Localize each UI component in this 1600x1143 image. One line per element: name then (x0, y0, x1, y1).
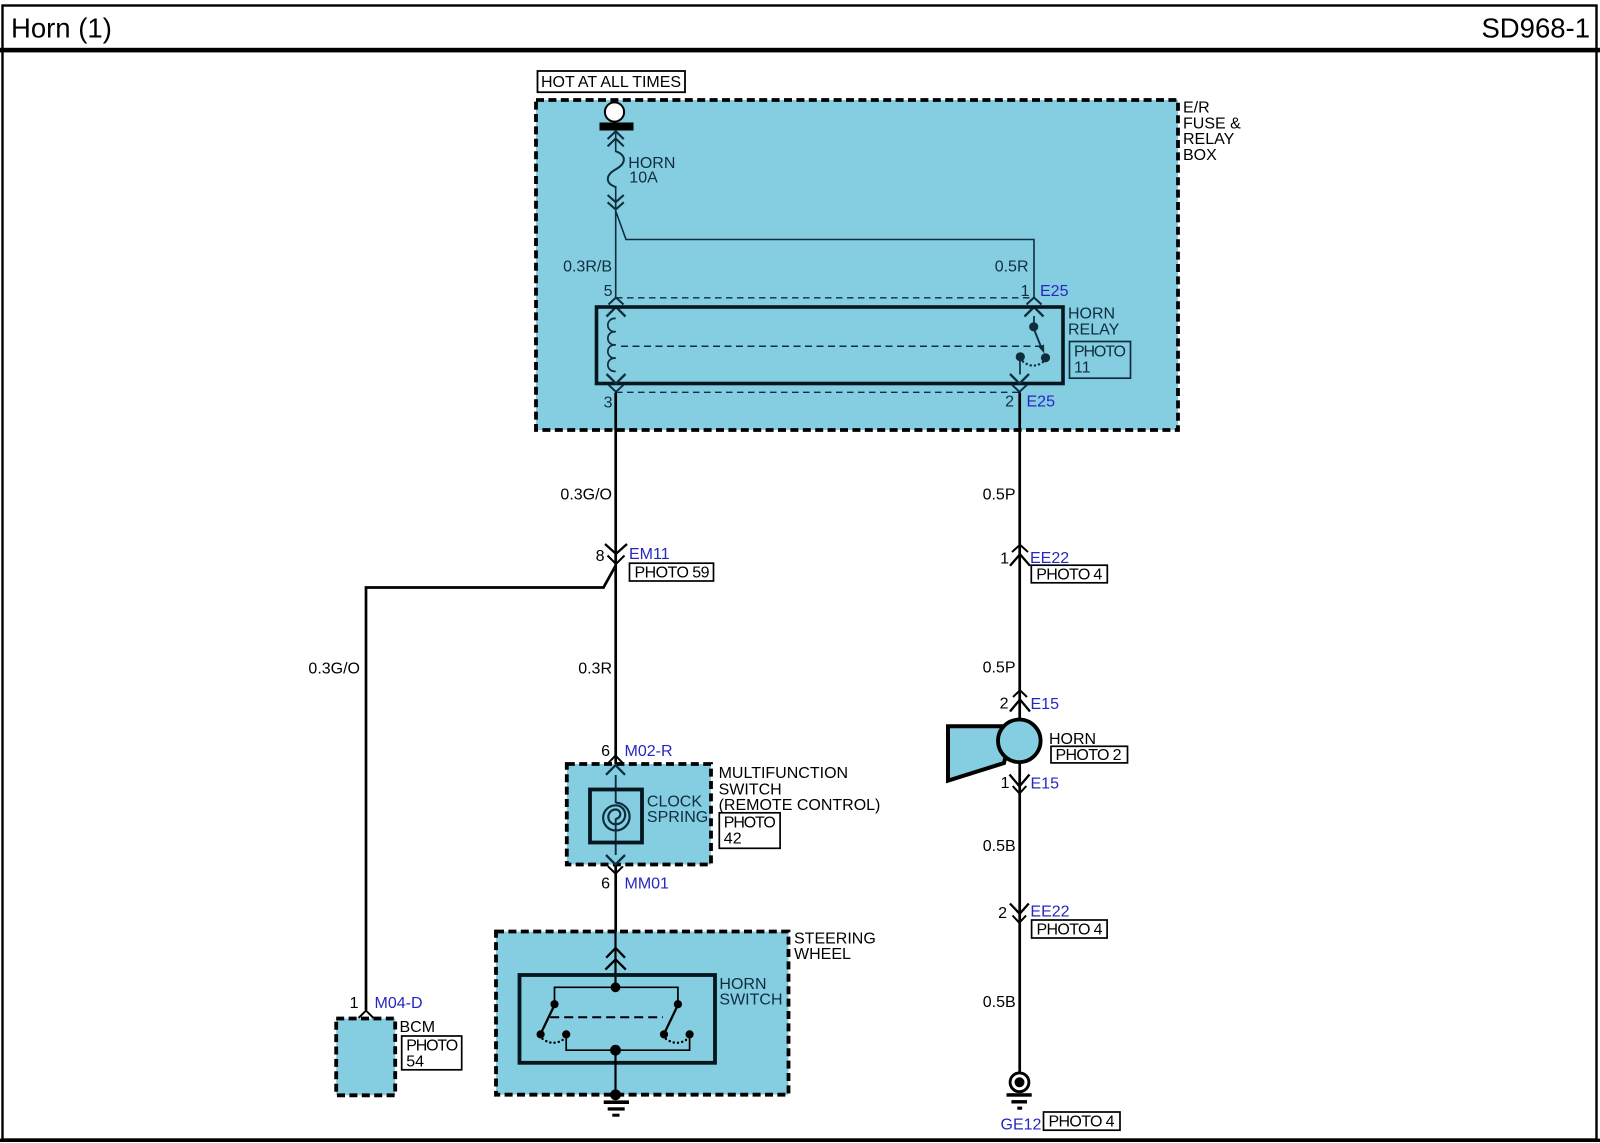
horn switch right arm (665, 1006, 678, 1033)
connector dashed line pins 3/2 (616, 391, 1020, 393)
svg-text:0.5B: 0.5B (983, 994, 1016, 1011)
label HOT AT ALL TIMES (538, 71, 686, 92)
relay internal dashed link (621, 345, 1040, 347)
svg-text:SWITCH: SWITCH (719, 781, 782, 798)
label PHOTO 4 (EE22 upper) (1031, 565, 1107, 583)
connector dashed line pins 5/1 (616, 297, 1034, 299)
svg-text:PHOTO 4: PHOTO 4 (1036, 566, 1102, 583)
horn switch box (520, 975, 716, 1063)
svg-text:RELAY: RELAY (1068, 321, 1120, 338)
svg-text:HOT AT ALL TIMES: HOT AT ALL TIMES (541, 74, 681, 91)
svg-text:PHOTO: PHOTO (406, 1037, 458, 1054)
steering wheel box (dashed blue) (496, 932, 789, 1095)
svg-text:E15: E15 (1031, 696, 1060, 713)
horn switch link dashed line (550, 1016, 663, 1018)
connector E15 chevrons (to horn pin 2) (1013, 690, 1027, 697)
svg-text:10A: 10A (629, 169, 658, 186)
wire relay pin 2 down to ground (1018, 393, 1021, 1074)
connector M02-R chevron (above clock spring) (608, 756, 623, 764)
svg-text:MM01: MM01 (625, 876, 670, 893)
relay coil (608, 318, 616, 371)
label PHOTO 2 (1051, 746, 1128, 763)
connector M04-D chevron (359, 1011, 374, 1018)
svg-text:BOX: BOX (1183, 147, 1217, 164)
svg-text:M02-R: M02-R (625, 743, 673, 760)
label PHOTO 42 (719, 813, 780, 849)
bus bar (600, 123, 634, 131)
horn switch common node (611, 982, 621, 992)
BCM box (dashed blue) (336, 1019, 395, 1096)
svg-text:PHOTO: PHOTO (1074, 343, 1126, 360)
svg-text:CLOCK: CLOCK (647, 793, 702, 810)
relay contact dots (1016, 352, 1025, 361)
horn switch right moving contacts (660, 1030, 668, 1038)
svg-text:PHOTO 59: PHOTO 59 (635, 565, 710, 582)
horn switch left fixed contact (550, 1000, 558, 1008)
svg-text:2: 2 (1000, 695, 1009, 712)
svg-text:PHOTO: PHOTO (724, 814, 776, 831)
connector MM01 chevron (below clock spring) (608, 866, 623, 873)
svg-text:0.5P: 0.5P (983, 659, 1016, 676)
svg-text:0.3R/B: 0.3R/B (563, 259, 612, 276)
clock spring spiral (603, 803, 629, 831)
svg-text:SWITCH: SWITCH (719, 991, 782, 1008)
relay switch arm (1034, 329, 1042, 349)
relay switch contact from pin 1 (1033, 316, 1035, 324)
svg-text:HORN: HORN (1068, 306, 1115, 323)
label PHOTO 4 (EE22 lower) (1032, 920, 1108, 938)
wire relay pin 3 down to horn switch (614, 393, 617, 988)
svg-text:0.5P: 0.5P (983, 486, 1016, 503)
wire branch to BCM (366, 566, 616, 1011)
horn switch right fixed contact (674, 1000, 682, 1008)
svg-text:1: 1 (1001, 775, 1010, 792)
connector E15 chevrons (from horn pin 1) (1010, 775, 1030, 787)
clock spring inner box (590, 790, 642, 843)
horn circle (998, 720, 1041, 763)
steering wheel entry chevrons (606, 948, 625, 958)
svg-text:0.3G/O: 0.3G/O (308, 660, 360, 677)
svg-text:SPRING: SPRING (647, 809, 708, 826)
wire contact to pin 2 (1019, 359, 1021, 375)
battery feed terminal (605, 102, 624, 121)
svg-text:3: 3 (604, 395, 613, 412)
svg-text:HORN: HORN (1049, 731, 1096, 748)
horn switch output node (610, 1045, 621, 1056)
label PHOTO 54 (402, 1036, 462, 1070)
svg-text:EM11: EM11 (629, 546, 670, 563)
svg-text:0.3G/O: 0.3G/O (560, 486, 612, 503)
svg-text:1: 1 (350, 995, 359, 1012)
svg-text:E15: E15 (1031, 776, 1060, 793)
wire through clock spring (615, 775, 617, 803)
svg-text:E25: E25 (1040, 283, 1069, 300)
svg-text:GE12: GE12 (1001, 1117, 1042, 1134)
svg-text:SD968-1: SD968-1 (1481, 13, 1590, 44)
label PHOTO 59 (630, 563, 714, 581)
horn switch left arm (541, 1006, 554, 1033)
wire inside steering wheel box (614, 932, 616, 988)
wire fuse to relay pin 5 (615, 211, 617, 297)
svg-text:M04-D: M04-D (375, 995, 423, 1012)
svg-text:EE22: EE22 (1030, 550, 1069, 567)
svg-text:0.3R: 0.3R (578, 660, 612, 677)
fuse bottom connector chevrons (615, 186, 617, 212)
svg-text:11: 11 (1074, 359, 1091, 376)
svg-text:MULTIFUNCTION: MULTIFUNCTION (719, 765, 848, 782)
steering ground bars (604, 1100, 629, 1104)
connector EM11 chevrons (605, 544, 627, 554)
svg-text:STEERING: STEERING (794, 930, 876, 947)
pin 3 connector chevrons (607, 374, 626, 384)
svg-text:0.5R: 0.5R (995, 259, 1029, 276)
svg-text:BCM: BCM (400, 1019, 436, 1036)
label PHOTO 11 (1070, 342, 1131, 379)
svg-text:PHOTO 2: PHOTO 2 (1056, 747, 1122, 764)
svg-text:E25: E25 (1027, 394, 1056, 411)
svg-text:42: 42 (724, 830, 742, 847)
svg-text:EE22: EE22 (1030, 903, 1069, 920)
title divider line (0, 48, 1600, 53)
svg-text:WHEEL: WHEEL (794, 946, 851, 963)
horn relay box (597, 307, 1064, 384)
connector EE22 chevrons (upper) (1012, 545, 1028, 552)
steering ground node dot (610, 1089, 621, 1100)
horn body trapezoid (948, 726, 1013, 780)
connector chevron inside clock spring top (606, 765, 625, 775)
fuse top connector chevrons (615, 130, 617, 152)
svg-text:E/R: E/R (1183, 100, 1210, 117)
svg-text:1: 1 (1000, 550, 1009, 567)
svg-text:PHOTO 4: PHOTO 4 (1037, 921, 1103, 938)
svg-text:6: 6 (601, 743, 610, 760)
pin 1 connector chevrons (1027, 298, 1042, 305)
ground GE12 ring (1010, 1073, 1029, 1092)
wire to steering ground (614, 1050, 616, 1100)
svg-text:2: 2 (1005, 394, 1014, 411)
svg-text:(REMOTE CONTROL): (REMOTE CONTROL) (719, 797, 881, 814)
svg-text:8: 8 (596, 548, 605, 565)
svg-text:RELAY: RELAY (1183, 131, 1235, 148)
svg-text:6: 6 (601, 876, 610, 893)
relay switch travel dashed arc (1023, 362, 1043, 366)
label PHOTO 4 (GE12) (1044, 1112, 1121, 1130)
connector EE22 chevrons (lower) (1010, 904, 1029, 914)
svg-text:FUSE &: FUSE & (1183, 115, 1241, 132)
svg-text:5: 5 (604, 283, 613, 300)
horn switch right travel dotted arc (666, 1039, 688, 1043)
svg-text:PHOTO 4: PHOTO 4 (1049, 1114, 1115, 1131)
clock spring box (dashed blue) (567, 764, 711, 865)
horn switch bottom rail (566, 1036, 689, 1050)
E/R fuse & relay box (dashed blue) (536, 100, 1178, 430)
svg-text:0.5B: 0.5B (983, 838, 1016, 855)
wire branch to relay pin 1 (616, 211, 1034, 297)
horn switch top rail (555, 987, 678, 1003)
ground GE12 bars (1007, 1093, 1032, 1097)
pin 5 connector chevrons (609, 298, 624, 305)
svg-text:54: 54 (406, 1053, 424, 1070)
svg-text:Horn (1): Horn (1) (11, 13, 112, 44)
fuse HORN 10A element (608, 151, 624, 187)
horn switch left moving contacts (537, 1030, 545, 1038)
horn switch left travel dotted arc (543, 1039, 565, 1043)
pin 2 connector chevrons (1010, 374, 1029, 384)
connector chevron inside clock spring bottom (606, 855, 625, 865)
svg-text:2: 2 (998, 905, 1007, 922)
